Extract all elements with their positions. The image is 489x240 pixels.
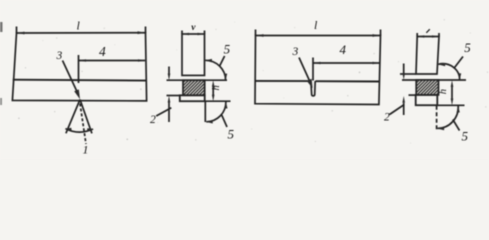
width label tick (right cross-section) [426, 29, 430, 33]
svg-text:5: 5 [462, 129, 469, 144]
extension bars for dimension l (right view) [255, 30, 257, 36]
width dimension arrowheads (right cross-section) [418, 35, 425, 38]
svg-text:h: h [438, 89, 449, 94]
svg-text:5: 5 [464, 40, 471, 55]
vertical extension below strip (right cross-section) [436, 106, 438, 131]
svg-text:4: 4 [340, 42, 347, 57]
extension bar of dimension 4 (right view) [312, 58, 314, 81]
seam line (left view) [13, 79, 146, 82]
plate bottom extension tick (right cross-section) [400, 73, 416, 75]
seam line with notch (right view) [255, 80, 310, 82]
dimension h (right cross-section) [451, 85, 453, 100]
paper speckle noise [18, 19, 488, 143]
leader 3 (right view) [299, 58, 311, 85]
svg-text:2: 2 [150, 114, 156, 126]
extension bar of dimension 4 (left view) [78, 55, 80, 83]
groove angle symbol legs [66, 100, 80, 134]
leader 5 bottom tail [453, 120, 460, 131]
dimension l arrowheads (right view) [256, 34, 264, 37]
leader 5 bottom arc (right cross-section) [438, 106, 459, 129]
dimension l arrowheads (left view) [17, 32, 25, 35]
backing strip (left cross-section) [180, 95, 205, 101]
hatch bottom extension line to left [167, 95, 181, 97]
weld seam hatched section (right cross-section) [416, 80, 438, 95]
svg-text:3: 3 [292, 46, 299, 58]
strip bottom extension tick (left cross-section) [205, 100, 231, 102]
leader 5 top arc (left cross-section) [205, 60, 225, 80]
leader 2 (right cross-section) [390, 105, 405, 115]
leader 5 top tail [454, 57, 463, 69]
svg-text:1: 1 [83, 143, 89, 157]
dimension 4 line (left view) [79, 60, 145, 62]
plate outline (right view) [255, 36, 381, 105]
scan smudge left edge top [0, 22, 3, 32]
weld seam hatched section (left cross-section) [183, 80, 205, 95]
lack-of-fusion dimension (right cross-section) [403, 64, 405, 74]
leader 5 bottom tail [222, 115, 227, 127]
svg-text:4: 4 [99, 44, 106, 59]
groove angle arc with arrows [66, 129, 94, 133]
extension bars for width dimension (right cross-section) [416, 33, 418, 37]
leader 3 (left view) [63, 61, 79, 96]
strip bottom extension tick (right cross-section) [409, 94, 416, 96]
weld top extension line (left cross-section) [167, 79, 228, 81]
svg-text:5: 5 [228, 127, 235, 142]
dimension h (left cross-section) [212, 85, 214, 97]
weld top extension line (right cross-section) [402, 79, 466, 81]
dashed bisector leader to label 1 [80, 104, 86, 145]
plate edge outline (left cross-section) [182, 34, 205, 75]
backing strip (right cross-section) [416, 95, 438, 105]
svg-text:2: 2 [384, 112, 390, 124]
leader 2 (left cross-section) [156, 108, 171, 116]
dimension 4 line (right view) [314, 62, 380, 64]
svg-text:3: 3 [56, 50, 63, 62]
leader 5 bottom arc (left cross-section) [206, 102, 226, 122]
scan smudge left edge bottom [0, 98, 2, 105]
svg-text:5: 5 [224, 42, 231, 57]
extension bars for dimension l (left view) [16, 27, 18, 34]
extension bars for width dimension (left cross-section) [181, 31, 183, 35]
leader 5 top arc (right cross-section) [438, 64, 459, 80]
plate edge outline (right cross-section) [416, 37, 439, 75]
lack-of-fusion dimension (left cross-section) [168, 67, 170, 75]
vertical extension below strip (left cross-section) [204, 101, 206, 122]
leader 5 top tail [220, 56, 225, 66]
plate outline (left view) [12, 33, 146, 101]
notch (right view) [311, 81, 315, 96]
width dimension arrowheads (left cross-section) [183, 33, 190, 36]
svg-text:h: h [211, 85, 222, 90]
